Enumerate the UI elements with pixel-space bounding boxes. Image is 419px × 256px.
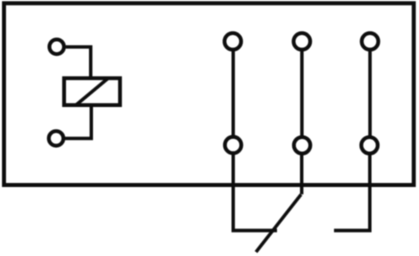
pole 3 bottom pin (361, 137, 377, 153)
relay body outline (4, 3, 414, 185)
pole 1 top pin (225, 33, 242, 50)
NC contact lead (pole 1, bent right) (233, 154, 277, 231)
pole 1 bottom pin (225, 137, 241, 153)
wire from coil to bottom coil terminal (65, 106, 92, 139)
relay coil K1 (64, 78, 120, 105)
pole 2 wire (300, 51, 303, 137)
movable contact blade (diagonal armature) (256, 195, 301, 253)
common contact stub (pole 2) (300, 154, 303, 194)
NO contact lead (pole 3, bent left) (334, 154, 370, 231)
wire from top coil terminal to coil (66, 47, 91, 78)
coil terminal pin (bottom left) (49, 131, 64, 146)
coil diagonal slash (76, 78, 109, 105)
pole 1 wire (231, 51, 234, 137)
pole 2 top pin (294, 33, 311, 50)
pole 3 wire (368, 51, 371, 137)
pole 3 top pin (362, 33, 379, 50)
coil terminal pin (top left) (49, 40, 64, 55)
pole 2 bottom pin (294, 137, 310, 153)
